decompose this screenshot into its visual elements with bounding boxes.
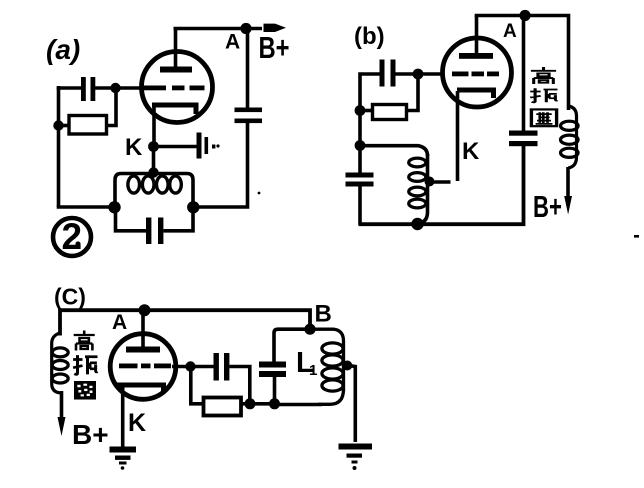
label B+ (a)	[259, 30, 290, 64]
triode V1 grid (dashed electrode)	[144, 86, 205, 91]
label K (a)	[125, 134, 143, 161]
triode V2 grid (dashed electrode)	[452, 72, 499, 77]
choke label 扼 (c)	[73, 355, 97, 374]
capacitor C7 (left tank cap, b)	[346, 173, 374, 226]
choke label 高 (c)	[74, 331, 95, 351]
choke label 圈 (boxed, b)	[531, 109, 556, 126]
triode V1 envelope	[142, 52, 213, 123]
wire: C8 right to corner down (c)	[229, 367, 249, 404]
label A (anode, c)	[112, 311, 127, 334]
wire: junction to cap junction (c)	[250, 402, 275, 406]
node: tank left junction	[108, 201, 120, 213]
wire: grid cap to tube grid	[95, 86, 145, 90]
svg-text:(a): (a)	[46, 34, 80, 65]
node: tank right junction	[187, 201, 199, 213]
node: top rail junction (b)	[519, 10, 530, 21]
capacitor C6 (anode tank cap, b)	[509, 131, 538, 147]
svg-text:A: A	[503, 21, 517, 42]
node: grid cap junction (b)	[413, 69, 424, 80]
triode V2 envelope	[443, 38, 512, 107]
svg-text:K: K	[125, 134, 143, 161]
wire: anode top rail (b)	[475, 16, 569, 111]
node: B+ rail junction	[240, 23, 251, 34]
label B+ (b)	[533, 190, 562, 224]
wire: left vertical down	[57, 86, 61, 207]
svg-text:B+: B+	[533, 190, 562, 224]
noise speck	[258, 192, 261, 195]
capacitor C2 (anode side, horizontal plates)	[235, 108, 263, 124]
ground symbol (under tube, c)	[110, 447, 137, 465]
svg-text:B+: B+	[72, 419, 109, 450]
wire: tube grid to junction (c)	[172, 365, 192, 369]
wire: left vertical (b)	[358, 111, 362, 174]
triode V2 cathode electrode	[457, 90, 494, 98]
wire: left corner to grid cap (b)	[360, 74, 380, 112]
B+ arrow (b, pointing down)	[564, 196, 572, 215]
triode V3 grid (dashed electrode)	[119, 364, 171, 369]
label B (c)	[315, 301, 332, 328]
B+ arrow (c, pointing down)	[58, 417, 66, 436]
resistor R1 (grid leak)	[59, 88, 117, 134]
wire: grid cap to tube grid (b)	[396, 72, 444, 76]
node: L1 tap (c)	[342, 361, 352, 371]
capacitor C3 (tank capacitor)	[116, 206, 194, 244]
wire: C6 down to bottom rail corner (b)	[359, 146, 524, 225]
noise speck	[216, 144, 219, 147]
node: grid cap / resistor junction	[110, 83, 120, 93]
svg-text:2: 2	[62, 216, 83, 257]
node: coil top centre tap	[148, 167, 158, 177]
label (b)	[354, 23, 385, 50]
inductor RFC choke coil (b, right)	[561, 106, 579, 168]
svg-text:A: A	[225, 31, 240, 54]
label B+ (c)	[72, 419, 109, 450]
noise speck at right edge	[634, 235, 639, 238]
resistor R2 (grid leak, b)	[360, 74, 418, 120]
wire: K to bypass capacitor	[154, 145, 197, 149]
node: grid junction (c)	[185, 361, 195, 371]
figure number 2 (circled)	[53, 216, 91, 257]
choke label 高 (b)	[531, 67, 556, 84]
wire: right branch vertical (B+ to C2)	[246, 29, 250, 109]
label L1 (c)	[296, 347, 317, 379]
ground symbol (right, c)	[339, 444, 373, 471]
triode V3 cathode lead wire	[121, 386, 125, 448]
choke label 圈 (boxed dark, c)	[74, 381, 96, 400]
triode V3 cathode electrode	[117, 385, 164, 392]
wire: bottom left to tank	[57, 205, 116, 209]
node: coil tap (b)	[425, 177, 435, 187]
noise speck under ground (c)	[121, 466, 125, 470]
wire: grid junction to C8 (c)	[191, 365, 214, 369]
node: left resistor junction	[53, 120, 63, 130]
label A (anode, a)	[225, 31, 240, 54]
node: coil feed junction (b)	[355, 140, 366, 151]
triode V3 anode plate	[126, 347, 160, 353]
node: B junction (c)	[304, 324, 315, 335]
triode V2 cathode lead wire (K)	[456, 91, 460, 181]
triode V2 anode plate	[459, 53, 493, 59]
inductor L2 (grid coil, b) loops	[409, 158, 426, 208]
node: resistor left junction (b)	[355, 105, 366, 116]
wire: grid coil spine and bottom to rail (b)	[415, 154, 428, 224]
label K (b)	[462, 138, 480, 165]
svg-text:A: A	[112, 311, 127, 334]
wire: K to coil tap	[152, 146, 156, 173]
wire: choke to B+ arrow (c)	[60, 391, 64, 419]
wire: top rail (c)	[60, 310, 310, 335]
svg-text:(b): (b)	[354, 23, 385, 50]
svg-text:1: 1	[309, 362, 317, 379]
label (a)	[46, 34, 80, 65]
capacitor C8 (grid cap, c)	[214, 353, 230, 381]
svg-text:(C): (C)	[54, 284, 86, 310]
svg-text:K: K	[462, 138, 480, 165]
capacitor C1 (grid capacitor, vertical plates)	[81, 77, 95, 101]
triode V3 anode lead wire	[141, 310, 145, 350]
node: C9 bottom junction (c)	[269, 398, 280, 409]
triode V1 anode plate	[160, 67, 192, 73]
wire: C2 down to tank right corner	[193, 123, 248, 207]
node: anode junction on rail (c)	[139, 304, 151, 316]
inductor L1 (tank coil outline)	[115, 174, 193, 208]
wire: rail junction down to C6 (b)	[522, 16, 526, 132]
node: resistor right junction (c)	[245, 398, 256, 409]
capacitor C9 (tank cap, c)	[259, 329, 310, 404]
wire: grid junction down to resistor (c)	[191, 367, 204, 404]
wire: tap to right ground (c)	[348, 365, 356, 442]
label A (anode, b)	[503, 21, 517, 42]
wire: left end to grid cap	[57, 86, 81, 90]
wire: bottom of tank to junction (c)	[275, 403, 323, 407]
triode V1 cathode electrode	[152, 105, 196, 114]
choke label 扼 (b)	[530, 88, 557, 102]
capacitor C5 (grid capacitor, b)	[380, 60, 396, 87]
triode V3 envelope	[110, 334, 176, 400]
wire: choke to B+ arrow (b)	[566, 167, 570, 198]
wire: junction to grid coil top (b)	[360, 146, 428, 156]
svg-text:K: K	[128, 409, 146, 437]
inductor RFC choke coil (c, left)	[52, 333, 68, 393]
label K (c)	[128, 409, 146, 437]
triode V1 cathode lead wire	[152, 106, 156, 147]
B+ arrow (a)	[264, 24, 287, 32]
label (C)	[54, 284, 86, 310]
svg-text:B+: B+	[259, 30, 290, 64]
wire: tap to cathode lead (b)	[430, 180, 451, 183]
capacitor C4 (cathode bypass)	[197, 133, 216, 159]
node K junction	[148, 141, 159, 152]
node: bottom rail junction (b)	[411, 218, 423, 230]
svg-text:B: B	[315, 301, 332, 328]
inductor L1 loops	[128, 176, 181, 193]
inductor L1 (tank coil, c)	[310, 329, 344, 404]
triode V2 anode lead wire	[475, 15, 479, 56]
wire: anode top rail to B+	[174, 27, 263, 31]
resistor R3 (grid leak, c)	[204, 398, 251, 416]
triode V1 anode lead wire	[174, 28, 178, 70]
